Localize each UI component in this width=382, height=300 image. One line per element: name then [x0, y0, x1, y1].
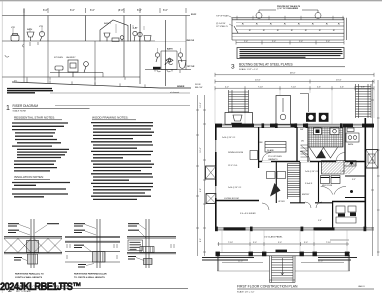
svg-text:SCALE: NONE: SCALE: NONE: [13, 110, 27, 113]
svg-text:22'-0": 22'-0": [238, 261, 243, 263]
insulation notes underline: [14, 178, 50, 180]
svg-text:9'-0": 9'-0": [278, 242, 282, 244]
svg-text:10'-6": 10'-6": [200, 147, 202, 152]
plan entry steps rails: [270, 256, 296, 283]
plan porch extension lines: [222, 230, 347, 252]
detail 1 leaders: [19, 225, 47, 261]
plan stair rungs: [288, 164, 301, 200]
svg-text:LAUNDRY: LAUNDRY: [66, 56, 76, 59]
svg-text:(8'-0"): (8'-0"): [118, 9, 125, 12]
svg-text:5'-0": 5'-0": [318, 220, 322, 222]
detail 1 stud wall vertical: [31, 219, 34, 268]
svg-text:PANTRY: PANTRY: [318, 156, 326, 159]
svg-text:22'-0": 22'-0": [318, 261, 323, 263]
svg-text:LAV: LAV: [134, 27, 139, 30]
sheet left border: [1, 1, 3, 293]
bolting beam right end: [344, 18, 347, 40]
plan bottom wall solid segments: [224, 227, 335, 230]
svg-text:VTR: VTR: [39, 26, 44, 28]
svg-text:5'-6": 5'-6": [340, 86, 344, 88]
detail 3 leaders: [136, 225, 146, 261]
svg-text:27 LF KITCHEN: 27 LF KITCHEN: [268, 156, 282, 158]
plan left dim ticks: [196, 110, 206, 252]
plan porch dim line: [218, 242, 350, 246]
svg-text:KITCHEN: KITCHEN: [54, 57, 63, 59]
plan top middle closet box: [276, 96, 291, 125]
svg-text:3'-0x6'-8: 3'-0x6'-8: [305, 183, 312, 185]
riser stack at x85: [85, 16, 87, 42]
svg-text:12'-2": 12'-2": [200, 102, 202, 107]
plan top middle closet fixture: [280, 98, 286, 120]
bolting beam left end: [232, 18, 238, 40]
riser title underline: [13, 107, 90, 109]
svg-text:8'-0": 8'-0": [200, 238, 202, 242]
riser note block: [7, 89, 53, 93]
svg-text:5'-6": 5'-6": [317, 86, 321, 88]
svg-text:3'-0": 3'-0": [304, 242, 308, 244]
plan top wall solid segments: [215, 124, 374, 128]
bolting dim texts: [244, 41, 330, 43]
riser first floor ticks: [27, 69, 172, 80]
plan fridge box: [250, 151, 258, 160]
plan interior wall vertical stair right: [276, 162, 300, 203]
riser group D room box: [161, 51, 177, 70]
riser grade sub line: [50, 93, 190, 106]
svg-text:TO JOISTS & WALL HEIGHTS: TO JOISTS & WALL HEIGHTS: [74, 276, 105, 279]
plan washer dryer boxes: [321, 176, 341, 184]
wood framing notes underline: [92, 119, 136, 121]
detail 1 blocking hatch: [27, 241, 39, 253]
svg-text:7'-10": 7'-10": [291, 86, 296, 88]
plan bottom wall jamb marks: [215, 227, 366, 232]
plan deck lower edge: [217, 270, 349, 272]
svg-text:TOP OF PLATE: TOP OF PLATE: [216, 15, 229, 18]
svg-text:2'-0": 2'-0": [272, 41, 276, 43]
svg-text:23'-6": 23'-6": [336, 80, 342, 82]
svg-text:INSULATION NOTES:: INSULATION NOTES:: [14, 175, 44, 179]
bolting dim line: [236, 41, 344, 45]
riser roof level line: [2, 15, 190, 17]
detail 3 floor band: [127, 237, 176, 238]
svg-text:1: 1: [6, 105, 10, 112]
svg-text:CABINETS: CABINETS: [268, 158, 278, 161]
riser group C labels: [54, 56, 76, 59]
bolting left labels: [216, 15, 229, 29]
svg-text:12'-0" CLG: 12'-0" CLG: [228, 165, 238, 167]
bolting title underline: [239, 66, 345, 68]
plan kitchen floor grid hatch: [308, 127, 343, 147]
svg-text:DINING ROOM: DINING ROOM: [228, 152, 243, 154]
plan top exterior wall lines: [215, 124, 374, 127]
plan porch edge band: [216, 252, 351, 256]
svg-text:3'-5": 3'-5": [352, 179, 356, 181]
plan left wall window gaps: [215, 140, 217, 198]
riser p-traps right: [157, 70, 180, 73]
svg-text:7'-10": 7'-10": [228, 242, 233, 244]
plan left dim column lines: [198, 95, 205, 256]
plan top-left exterior stair treads: [229, 92, 249, 111]
svg-text:7'-10": 7'-10": [258, 86, 263, 88]
detail 2 side ticks: [67, 244, 117, 259]
plan fireplace bump right: [366, 150, 378, 169]
detail 2 labels: [74, 224, 86, 267]
svg-text:LIVING ROOM: LIVING ROOM: [224, 198, 239, 200]
svg-text:PARTITIONS PARALLEL TO: PARTITIONS PARALLEL TO: [15, 273, 44, 276]
detail 3 note box: [128, 240, 143, 251]
plan interior wall vertical stair left: [296, 127, 298, 162]
detail 1 title: [15, 273, 44, 279]
plan bay window left: [206, 166, 217, 179]
plan double door arcs: [321, 186, 346, 194]
plan dim line 2: [215, 80, 374, 84]
bolting bolt marks row2: [249, 30, 334, 31]
riser group D tub: [179, 61, 187, 69]
svg-text:8'-0": 8'-0": [43, 9, 48, 12]
detail 3 bottom band: [127, 253, 176, 254]
riser dimension ticks: [24, 8, 186, 13]
plan porch note left: [202, 258, 254, 261]
plan kitchen bifold door triangles: [310, 148, 338, 159]
svg-text:BATH: BATH: [167, 48, 173, 51]
svg-text:2024JKLRBE1JTS™: 2024JKLRBE1JTS™: [0, 281, 81, 293]
plan top-left exterior stair rails: [229, 90, 249, 113]
svg-text:5'-1 1/2": 5'-1 1/2": [349, 164, 356, 166]
detail 2 leaders: [84, 225, 96, 266]
plan interior wall horizontal main: [258, 161, 365, 163]
riser dimension text 8'-0" row: [43, 9, 168, 12]
riser group C laundry box: [68, 60, 78, 77]
detail 3 blocking hatch: [140, 247, 154, 253]
plan porch dim under texts: [238, 261, 323, 263]
svg-text:SCALE: 1 1/2" = 1'-0": SCALE: 1 1/2" = 1'-0": [239, 68, 258, 71]
svg-text:BATH: BATH: [348, 143, 354, 146]
plan dim line 2 texts: [255, 80, 342, 82]
svg-text:PARTITIONS PERPENDICULAR: PARTITIONS PERPENDICULAR: [74, 273, 107, 276]
riser stack at x186: [185, 16, 187, 70]
svg-text:MUD ROOM: MUD ROOM: [322, 185, 333, 187]
plan column footing right: [319, 113, 329, 122]
detail 3 lower blocking hatch: [144, 259, 153, 265]
plan right exterior wall: [364, 118, 366, 228]
riser second floor line: [2, 40, 155, 42]
plan stair closet boxes: [267, 172, 286, 179]
svg-text:RESIDENTIAL STAIR NOTES:: RESIDENTIAL STAIR NOTES:: [14, 116, 55, 120]
plan hall door arcs: [262, 152, 345, 211]
riser group B extra fixtures: [131, 24, 152, 42]
svg-text:ROOF: ROOF: [191, 14, 197, 16]
plan right dim column lines: [373, 80, 379, 256]
plan entry steps landing: [270, 280, 296, 283]
detail 3 labels: [128, 224, 139, 259]
detail 2 stud wall vertical: [97, 219, 100, 268]
riser group D lavs: [155, 53, 182, 62]
svg-text:BELOW: BELOW: [195, 87, 202, 89]
svg-text:7'-10": 7'-10": [326, 242, 331, 244]
partition master title underline: [16, 288, 188, 290]
svg-text:48'-0": 48'-0": [290, 73, 296, 75]
plan interior wall lower left: [215, 200, 259, 202]
bolting callout circle right: [302, 10, 321, 19]
plan top wall glazing center line: [215, 125, 374, 127]
plan kitchen edge wall: [307, 127, 309, 162]
plan deck grill dark: [231, 123, 242, 127]
plan interior wall horizontal door gaps: [262, 161, 345, 163]
svg-text:1/2" STEEL PL: 1/2" STEEL PL: [216, 26, 228, 28]
svg-text:SCALE: 1/4" = 1'-0": SCALE: 1/4" = 1'-0": [237, 290, 255, 293]
riser second floor level stub: [155, 41, 186, 43]
plan porch dim arrows under: [222, 262, 344, 264]
riser first floor line right: [145, 69, 191, 71]
plan left wall glazing: [215, 140, 217, 198]
riser drops to main: [24, 41, 103, 85]
plan top-left deck box: [225, 113, 253, 125]
svg-text:8'-0": 8'-0": [163, 9, 168, 12]
svg-text:5%: 5%: [14, 81, 17, 83]
riser first floor line: [2, 76, 140, 78]
riser stack at x48: [47, 16, 49, 42]
detail 3 side ticks: [171, 244, 174, 248]
svg-text:2'-0": 2'-0": [244, 41, 248, 43]
insulation notes text lines: [12, 183, 70, 197]
svg-text:FIRST FLOOR CONSTRUCTION PLAN: FIRST FLOOR CONSTRUCTION PLAN: [237, 285, 298, 289]
residential stair notes text lines: [12, 123, 69, 171]
detail 1 floor band: [4, 237, 62, 238]
plan bottom exterior wall lines: [215, 228, 374, 230]
plan porch note right: [318, 258, 357, 261]
riser fixture group A: lav circle: [39, 31, 44, 41]
riser group D dark WC side: [153, 67, 161, 70]
plan top-left deck fixture: [233, 115, 242, 121]
plan left dim texts: [200, 102, 202, 242]
svg-text:2x10 @ 16" OC: 2x10 @ 16" OC: [222, 137, 236, 139]
plan porch dim texts: [228, 242, 331, 244]
plan stair up arrow dark: [270, 183, 281, 197]
svg-text:ENTRY: ENTRY: [302, 194, 310, 196]
plan interior wall vertical right bath: [333, 127, 345, 228]
sheet top border: [0, 0, 382, 2]
svg-text:WOOD FRAMING NOTES:: WOOD FRAMING NOTES:: [92, 116, 128, 120]
plan left exterior wall: [215, 125, 217, 229]
plan wall segment hall right: [345, 197, 365, 199]
plan lower right fixtures: [336, 206, 356, 223]
plan entry steps label: [276, 250, 288, 252]
detail 1 labels: [8, 224, 59, 260]
detail 2 floor band: [65, 237, 120, 243]
riser vent stubs: [13, 24, 181, 53]
plan interior wall lower right: [332, 201, 365, 203]
detail 2 blocking hatch: [93, 252, 106, 262]
plan right porch step line: [330, 239, 349, 241]
plan mud room hatch: [322, 161, 357, 175]
bolting beam top ticks: [237, 16, 343, 20]
riser cleanout ticks on main: [27, 80, 145, 88]
svg-text:UP 16R: UP 16R: [278, 201, 285, 203]
svg-text:2'-0": 2'-0": [326, 41, 330, 43]
plan column footing left: [306, 113, 316, 122]
riser group B roof slope: [100, 20, 128, 42]
svg-text:2ND FLR: 2ND FLR: [187, 40, 195, 42]
svg-text:2x10 @ 16" OC: 2x10 @ 16" OC: [305, 171, 319, 173]
svg-text:BATH 2: BATH 2: [104, 22, 112, 25]
plan lower right dark fixtures: [338, 213, 356, 217]
svg-text:VTR: VTR: [11, 27, 16, 29]
plan interior wall lower center: [290, 202, 332, 204]
svg-text:8'-0": 8'-0": [137, 9, 142, 12]
plan dim line 1: [215, 73, 374, 77]
riser group A vent labels: [11, 26, 44, 31]
plan column dots: [350, 162, 353, 194]
wood framing notes text lines: [91, 123, 154, 200]
plan top-right exterior stair rails: [356, 84, 372, 118]
riser stack at x165: [165, 20, 167, 86]
svg-text:(2) 2x12 W/: (2) 2x12 W/: [216, 23, 226, 25]
svg-text:BOLTING DETAIL AT STEEL PLATES: BOLTING DETAIL AT STEEL PLATES: [239, 63, 293, 67]
detail 1 bottom band: [4, 253, 62, 254]
svg-text:2'-0": 2'-0": [299, 41, 303, 43]
riser group B lav: [104, 33, 110, 42]
svg-text:ROOF: ROOF: [195, 84, 202, 86]
riser stack at x24: [23, 9, 25, 41]
riser group C kitchen sink: [55, 66, 63, 77]
svg-text:1ST FLR: 1ST FLR: [187, 66, 195, 68]
riser floor level labels: [187, 14, 198, 68]
svg-text:8'-0": 8'-0": [90, 9, 95, 12]
plan bay window lower-left: [206, 194, 216, 204]
svg-text:ISLAND: ISLAND: [267, 149, 274, 152]
detail 3 stud wall vertical: [146, 219, 149, 268]
svg-text:8'-0": 8'-0": [70, 9, 75, 12]
riser group C lav right: [84, 62, 89, 73]
plan top wall jamb marks: [262, 123, 343, 128]
detail 1 x-bracing: [4, 239, 62, 253]
plan misc annotation texts: [222, 129, 356, 222]
plan wall segment mudroom: [345, 175, 365, 177]
plan entry steps arrow: [281, 258, 284, 275]
plan basement stair winders: [301, 145, 308, 157]
bolting note box text lines: [240, 50, 343, 58]
plan right bath fixtures: [346, 128, 359, 142]
svg-text:JOISTS & WALL HEIGHTS: JOISTS & WALL HEIGHTS: [15, 276, 43, 279]
riser fixture group A: lav trapezoid: [27, 32, 34, 41]
plan interior wall vertical kitchen: [258, 127, 260, 168]
bolting left leader: [229, 16, 233, 26]
riser stack at x140: [139, 16, 141, 85]
plan right dim ticks: [371, 100, 380, 252]
svg-text:3: 3: [231, 64, 235, 71]
riser soil main sloped: [12, 82, 191, 88]
svg-text:7'-11": 7'-11": [340, 171, 345, 173]
plan dim line 3 texts: [225, 86, 365, 88]
bolting note box: [237, 48, 344, 59]
svg-text:w/ cleanout: w/ cleanout: [170, 91, 180, 94]
plan porch posts: [216, 252, 350, 257]
plan kitchen island: [265, 142, 286, 153]
svg-text:2x10 @ 16" OC: 2x10 @ 16" OC: [228, 187, 242, 189]
plan entry steps treads: [272, 257, 294, 278]
bolting bolt marks row1: [242, 23, 339, 24]
plan dim line 3: [215, 86, 374, 90]
detail 1 lower blocking hatch: [28, 254, 38, 264]
bolting callout circle left: [256, 10, 276, 19]
riser group B WC: [112, 36, 124, 42]
svg-text:9'-0 x 8'-0 SLIDER: 9'-0 x 8'-0 SLIDER: [240, 213, 256, 215]
svg-text:SEWER: SEWER: [177, 86, 185, 88]
plan top column line: [300, 94, 309, 113]
bolting beam ply lines: [232, 23, 344, 37]
svg-text:RISER DIAGRAM: RISER DIAGRAM: [13, 104, 39, 108]
svg-text:4'-0": 4'-0": [225, 86, 229, 88]
riser left drain hook: [5, 42, 38, 57]
svg-text:LAB 01: LAB 01: [358, 285, 365, 288]
plan top-right exterior stair treads: [356, 87, 372, 117]
riser stack at x124: [123, 16, 125, 78]
bolting callout note text: [277, 5, 301, 10]
detail 2 title: [74, 273, 107, 279]
plan porch side skirts: [217, 256, 349, 271]
detail 2 bottom band: [65, 252, 120, 262]
svg-text:9'-8": 9'-8": [200, 188, 202, 192]
svg-text:@ 16" OC STAGGERED: @ 16" OC STAGGERED: [277, 7, 299, 10]
residential stair notes underline: [14, 119, 62, 121]
riser fixture group A: WC tank: [11, 34, 19, 42]
riser group D WC: [165, 58, 173, 65]
svg-text:24'-6": 24'-6": [255, 80, 261, 82]
plan top extension lines: [215, 89, 374, 124]
svg-text:DW: DW: [300, 129, 303, 131]
riser kitchen floor segment: [50, 72, 103, 74]
plan roof below note: [195, 84, 202, 89]
svg-text:1/2 GLASS PANEL: 1/2 GLASS PANEL: [264, 236, 283, 239]
svg-text:3'-0": 3'-0": [253, 242, 257, 244]
bolting beam lines: [232, 18, 344, 40]
plan interior wall vertical hall: [318, 162, 320, 202]
plan title underline: [237, 288, 374, 290]
plan kitchen appliance boxes: [314, 128, 340, 135]
